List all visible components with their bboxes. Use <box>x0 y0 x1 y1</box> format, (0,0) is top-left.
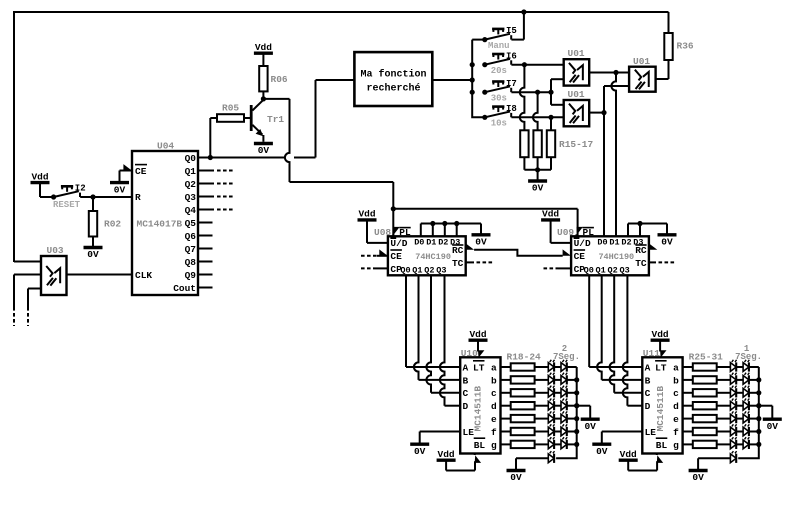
svg-text:0V: 0V <box>532 183 544 194</box>
wire R15-17 commons <box>523 157 525 170</box>
pin BL U11 (wedge) <box>657 455 663 463</box>
svg-text:CE: CE <box>135 166 147 177</box>
svg-text:R15-17: R15-17 <box>559 139 594 150</box>
svg-text:CLK: CLK <box>135 270 152 281</box>
node rail I7 <box>470 90 475 95</box>
switch I6 20s <box>482 62 487 67</box>
svg-text:R36: R36 <box>677 41 694 52</box>
svg-text:R02: R02 <box>104 218 121 229</box>
svg-text:Q0: Q0 <box>185 153 197 164</box>
wire U03 out to CLK <box>67 274 133 276</box>
wire LE U11 <box>602 431 643 433</box>
wire R02 bottom <box>92 237 94 248</box>
svg-text:0V: 0V <box>414 446 426 457</box>
buffer U03 <box>41 256 67 295</box>
node D3 rail <box>454 221 459 226</box>
svg-text:A: A <box>645 362 651 373</box>
wire display 2 cathode rail <box>556 367 579 458</box>
svg-text:D2: D2 <box>621 238 631 248</box>
svg-text:a: a <box>491 362 497 373</box>
wire rail to ground (2) <box>577 405 591 407</box>
svg-text:PL: PL <box>583 227 595 238</box>
svg-text:R25-31: R25-31 <box>689 352 724 363</box>
svg-text:U10: U10 <box>461 348 478 359</box>
svg-text:CE: CE <box>390 251 402 262</box>
svg-text:CE: CE <box>574 251 586 262</box>
svg-text:0V: 0V <box>584 421 596 432</box>
svg-text:BL: BL <box>656 440 668 451</box>
wire Vdd to I2 <box>40 196 54 198</box>
wire BL U10 <box>474 461 476 470</box>
node U01b out <box>601 110 606 115</box>
svg-text:C: C <box>463 388 469 399</box>
svg-text:Vdd: Vdd <box>358 209 375 220</box>
svg-text:U/D: U/D <box>574 238 591 249</box>
svg-text:I5: I5 <box>506 26 517 36</box>
switch I2 RESET <box>51 194 56 199</box>
wire U10 ABCD inputs <box>406 367 460 406</box>
gate U01 b <box>564 100 590 126</box>
svg-text:D: D <box>463 401 469 412</box>
svg-text:I8: I8 <box>506 104 517 114</box>
wire U09 CP dash <box>544 267 559 269</box>
resistor R36 <box>664 33 672 60</box>
svg-text:R18-24: R18-24 <box>507 352 542 363</box>
wire U01a out <box>589 72 629 74</box>
wire I8 down to R17 <box>550 117 552 130</box>
svg-text:Q5: Q5 <box>185 218 197 229</box>
wire U09 D2 D3 stubs <box>627 224 629 237</box>
node I7 split <box>548 90 553 95</box>
wire U08 D stubs <box>420 224 422 237</box>
svg-text:Vdd: Vdd <box>652 329 669 340</box>
svg-text:I7: I7 <box>506 79 517 89</box>
counter U04 MC14017B <box>132 140 198 295</box>
wedge CE U09 <box>563 249 571 255</box>
svg-text:R06: R06 <box>271 74 288 85</box>
wire switch rail <box>472 40 485 118</box>
wire collector to PL tee <box>290 181 394 183</box>
svg-text:U01: U01 <box>633 56 650 67</box>
svg-text:Q2: Q2 <box>185 179 197 190</box>
node D1 rail <box>430 221 435 226</box>
wire I2 to R pin <box>80 196 132 198</box>
svg-text:D0: D0 <box>414 238 424 248</box>
svg-text:d: d <box>673 401 679 412</box>
wire collector down (hops Q0) <box>285 99 290 182</box>
ground 0V (U08 D) <box>472 233 491 236</box>
pin PL U08 (wedge) <box>392 234 394 236</box>
wire U08 TC stub <box>466 261 474 263</box>
power Vdd (U11 BL) <box>619 459 638 462</box>
ground 0V (Tr1) <box>254 142 273 145</box>
transistor Tr1 <box>250 105 253 131</box>
ground 0V (LE U10) <box>410 443 429 446</box>
wire U08 CE dash <box>361 255 377 257</box>
power Vdd (U09 U/D) <box>541 218 560 221</box>
wire display 1 cathode rail <box>738 367 761 458</box>
svg-text:b: b <box>673 375 679 386</box>
node Q0/R05 <box>208 155 213 160</box>
svg-text:e: e <box>673 414 679 425</box>
svg-text:Q0: Q0 <box>400 265 410 275</box>
svg-text:c: c <box>491 388 497 399</box>
svg-text:Q9: Q9 <box>185 270 197 281</box>
svg-text:B: B <box>645 375 651 386</box>
svg-text:g: g <box>673 440 679 451</box>
ground 0V (U09 D) <box>658 233 677 236</box>
svg-text:U11: U11 <box>643 348 660 359</box>
wire R05 to base <box>244 117 250 119</box>
node I6/R15 <box>522 62 527 67</box>
wire border to U03 in1 <box>14 261 41 263</box>
svg-text:D: D <box>645 401 651 412</box>
wire PL U09 <box>393 208 577 210</box>
svg-text:Vdd: Vdd <box>255 42 272 53</box>
wire R05 branch <box>209 118 211 158</box>
wire I6 to U01a in1 <box>511 64 563 66</box>
svg-text:Tr1: Tr1 <box>267 114 284 125</box>
svg-text:Vdd: Vdd <box>469 329 486 340</box>
node D2 rail <box>442 221 447 226</box>
resistor R06 <box>259 66 267 91</box>
svg-text:e: e <box>491 414 497 425</box>
node I8/R17 <box>548 115 553 120</box>
wire U09 TC stub <box>649 261 656 263</box>
svg-text:74HC190: 74HC190 <box>415 252 451 262</box>
wire LE U10 <box>420 431 461 433</box>
svg-text:R05: R05 <box>222 103 239 114</box>
wire U03 in2 <box>14 274 41 276</box>
svg-text:0V: 0V <box>767 421 779 432</box>
svg-text:MC14511B: MC14511B <box>655 386 666 432</box>
wire collector right <box>263 98 289 100</box>
wire PL U08 <box>392 209 394 237</box>
wedge RC U09 <box>649 243 657 249</box>
svg-text:Q1: Q1 <box>185 166 197 177</box>
svg-text:30s: 30s <box>491 94 507 104</box>
wire top border <box>14 11 669 13</box>
wedge CE U08 <box>379 249 387 255</box>
wire CE <box>120 170 133 172</box>
power Vdd (R06) <box>254 52 273 55</box>
ground 0V (LE U11) <box>592 443 611 446</box>
svg-text:0V: 0V <box>258 145 270 156</box>
svg-text:D0: D0 <box>597 238 607 248</box>
wedge CE U04 <box>123 164 131 170</box>
svg-text:RC: RC <box>452 245 464 256</box>
wire I7 <box>511 91 551 93</box>
svg-text:Cout: Cout <box>173 283 196 294</box>
display 2 7Seg LEDs <box>548 344 580 449</box>
diode DP display 1 <box>730 454 736 463</box>
wire U08 CP dash <box>361 267 375 269</box>
wire R02 top <box>92 197 94 211</box>
wire U01b junction down to D0 <box>603 113 605 237</box>
svg-text:U01: U01 <box>568 89 585 100</box>
svg-text:Manu: Manu <box>488 41 510 51</box>
svg-text:U04: U04 <box>157 140 174 151</box>
wire rail to ground (1) <box>759 405 773 407</box>
wire fonction to rail <box>432 79 472 81</box>
ground 0V (R15-17) <box>528 179 547 182</box>
node border/I5 junction <box>521 9 526 14</box>
wire I5 to border <box>511 39 524 41</box>
wire U01b to U01c in2 <box>603 86 605 113</box>
wire I8 to U01b in2 <box>511 116 563 118</box>
svg-text:Q2: Q2 <box>607 265 617 275</box>
svg-text:20s: 20s <box>491 66 507 76</box>
decoder U10 MC14511B <box>460 357 500 453</box>
switch I7 30s <box>482 90 487 95</box>
svg-text:I2: I2 <box>75 184 86 194</box>
resistors R25-31 <box>683 352 731 449</box>
svg-text:10s: 10s <box>491 119 507 129</box>
node U01a out <box>613 70 618 75</box>
svg-text:Q1: Q1 <box>412 265 422 275</box>
wire Q0 up to fonction box <box>315 80 317 158</box>
counter U09 74HC190 <box>571 236 649 275</box>
svg-text:g: g <box>491 440 497 451</box>
wedge RC U08 <box>466 243 474 249</box>
power Vdd (U08 U/D) <box>358 218 377 221</box>
diode DP display 2 <box>548 454 554 463</box>
wire BL U11 <box>656 461 658 470</box>
svg-text:Vdd: Vdd <box>620 449 637 460</box>
power Vdd (U10 LT) <box>469 339 488 342</box>
svg-text:Q4: Q4 <box>185 205 197 216</box>
resistor R02 <box>89 211 97 237</box>
svg-text:D1: D1 <box>609 238 619 248</box>
svg-text:Q3: Q3 <box>436 265 446 275</box>
node rail feed <box>470 77 475 82</box>
U04 output stubs Q1-Q9 Cout <box>198 171 233 288</box>
svg-text:MC14017B: MC14017B <box>137 219 183 230</box>
ground 0V (CE U04) <box>110 181 129 184</box>
block Ma fonction recherche <box>354 52 432 106</box>
svg-text:d: d <box>491 401 497 412</box>
svg-text:74HC190: 74HC190 <box>598 252 634 262</box>
wire U01b out <box>589 112 604 114</box>
svg-text:LT: LT <box>655 362 667 373</box>
decoder U11 MC14511B <box>642 357 682 453</box>
node collector <box>261 96 266 101</box>
svg-text:0V: 0V <box>114 184 126 195</box>
pin BL U10 (wedge) <box>475 455 481 463</box>
wire I7 to U01b in1 <box>550 92 552 105</box>
svg-text:C: C <box>645 388 651 399</box>
ground 0V (DP 1) <box>689 469 708 472</box>
pin PL U09 (wedge) <box>576 234 578 236</box>
switch I8 10s <box>482 115 487 120</box>
resistor R05 <box>217 114 244 122</box>
svg-text:U/D: U/D <box>390 238 407 249</box>
svg-text:Q8: Q8 <box>185 257 197 268</box>
node R junction <box>90 194 95 199</box>
svg-text:0V: 0V <box>475 237 487 248</box>
wire U01a junction down to D1 (hops) <box>611 73 616 237</box>
svg-text:D1: D1 <box>426 238 436 248</box>
wire I6 down to R15 (hops I7,I8) <box>520 65 525 131</box>
node R common <box>535 167 540 172</box>
svg-text:RC: RC <box>635 245 647 256</box>
svg-text:b: b <box>491 375 497 386</box>
node U09 D3 rail <box>637 221 642 226</box>
wire I7 down to R16 (hops I8) <box>533 92 538 130</box>
svg-text:B: B <box>463 375 469 386</box>
svg-text:Q3: Q3 <box>619 265 629 275</box>
wire U03 in3 <box>28 288 41 290</box>
svg-text:BL: BL <box>474 440 486 451</box>
svg-text:TC: TC <box>452 258 464 269</box>
ground 0V (R02) <box>84 246 103 249</box>
wire R06 to collector <box>262 91 264 99</box>
wire R36 top <box>668 12 670 33</box>
wire U09 Q0-Q3 down (with hops) <box>589 275 627 405</box>
svg-text:0V: 0V <box>596 446 608 457</box>
svg-text:Ma fonction: Ma fonction <box>360 69 426 81</box>
svg-text:0V: 0V <box>510 472 522 483</box>
ground 0V (rail 1) <box>763 418 782 421</box>
svg-text:TC: TC <box>635 258 647 269</box>
counter U08 74HC190 <box>388 236 466 275</box>
wire U08 Q0-Q3 down (with hops) <box>406 275 445 405</box>
resistors R15-17 <box>520 130 528 157</box>
svg-text:f: f <box>491 427 497 438</box>
svg-text:MC14511B: MC14511B <box>473 386 484 432</box>
svg-text:I6: I6 <box>506 51 517 61</box>
svg-text:PL: PL <box>399 227 411 238</box>
svg-text:Q1: Q1 <box>595 265 605 275</box>
svg-text:Q3: Q3 <box>185 192 197 203</box>
wire to ground <box>537 170 539 181</box>
ground 0V (DP 2) <box>507 469 526 472</box>
wire U08 RC to U09 CE <box>474 250 563 256</box>
svg-text:Vdd: Vdd <box>542 209 559 220</box>
svg-text:7Seg.: 7Seg. <box>735 352 762 362</box>
svg-text:D2: D2 <box>438 238 448 248</box>
svg-text:f: f <box>673 427 679 438</box>
svg-text:U03: U03 <box>47 245 64 256</box>
svg-text:U01: U01 <box>568 48 585 59</box>
svg-text:RESET: RESET <box>53 200 81 210</box>
wire I7 to U01a in2 <box>550 79 552 92</box>
svg-text:Q6: Q6 <box>185 231 197 242</box>
svg-text:0V: 0V <box>87 249 99 260</box>
power Vdd (reset) <box>31 181 50 184</box>
svg-text:c: c <box>673 388 679 399</box>
svg-text:Q7: Q7 <box>185 244 197 255</box>
switch I5 Manu <box>482 37 487 42</box>
wire Q0 <box>198 157 285 159</box>
resistors R18-24 <box>501 352 549 449</box>
svg-text:recherché: recherché <box>366 83 420 95</box>
svg-text:Q2: Q2 <box>424 265 434 275</box>
wire U11 ABCD inputs <box>589 367 642 406</box>
svg-text:0V: 0V <box>661 237 673 248</box>
svg-text:0V: 0V <box>692 472 704 483</box>
ground 0V (rail 2) <box>581 418 600 421</box>
svg-text:A: A <box>463 362 469 373</box>
svg-text:Vdd: Vdd <box>438 449 455 460</box>
power Vdd (U10 BL) <box>437 459 456 462</box>
gate U01 a <box>564 59 590 85</box>
gate U01 c <box>629 67 656 92</box>
display 1 7Seg LEDs <box>730 344 762 449</box>
svg-text:U09: U09 <box>557 227 574 238</box>
svg-text:R: R <box>135 192 141 203</box>
svg-text:U08: U08 <box>374 227 391 238</box>
svg-text:LT: LT <box>473 362 485 373</box>
power Vdd (U11 LT) <box>651 339 670 342</box>
node PL tee <box>391 206 396 211</box>
node rail I6 <box>470 62 475 67</box>
svg-text:Q0: Q0 <box>584 265 594 275</box>
node I7/R16 <box>535 90 540 95</box>
wire U01c out to R36 <box>656 78 669 80</box>
svg-text:a: a <box>673 362 679 373</box>
svg-text:7Seg.: 7Seg. <box>553 352 580 362</box>
svg-text:Vdd: Vdd <box>31 171 48 182</box>
